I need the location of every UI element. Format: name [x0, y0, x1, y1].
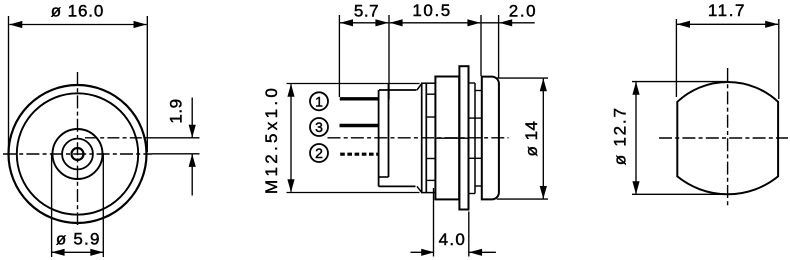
terminal number 1 — [310, 92, 328, 110]
dimension 4.0 — [411, 188, 496, 257]
vertical centerline right view — [727, 68, 729, 208]
actuator center circle — [72, 148, 84, 160]
dimension M12.5x1.0 — [262, 84, 295, 194]
button outline ø12.7 with flats 11.7 — [677, 82, 778, 194]
threaded bushing root lines — [379, 84, 422, 192]
svg-text:10.5: 10.5 — [412, 1, 452, 20]
mounting nut ø14 — [435, 77, 459, 200]
actuator middle circle — [62, 139, 93, 170]
dimension 1.9 — [85, 98, 200, 196]
rear insulator disc — [379, 84, 389, 186]
svg-text:2: 2 — [315, 145, 323, 161]
nut/flange mid seam line — [435, 137, 468, 139]
terminal number 2 — [310, 144, 328, 162]
horizontal centerline middle view — [328, 137, 509, 139]
dimension ø12.7 — [610, 82, 728, 195]
thread crest lines M12.5 — [287, 84, 420, 193]
svg-text:ø 14: ø 14 — [522, 120, 541, 156]
terminal pin 1 — [340, 97, 380, 100]
vertical centerline left view — [77, 72, 79, 225]
horizontal centerline left view — [3, 153, 152, 155]
dimension ø14 — [496, 78, 549, 199]
svg-text:1.9: 1.9 — [166, 98, 185, 123]
svg-text:11.7: 11.7 — [708, 1, 746, 20]
svg-text:5.7: 5.7 — [354, 1, 379, 20]
dimension 5.7 — [339, 1, 389, 99]
svg-text:4.0: 4.0 — [439, 230, 467, 249]
svg-text:3: 3 — [315, 119, 323, 135]
dimension ø5.9 — [52, 153, 104, 257]
svg-text:2.0: 2.0 — [509, 1, 537, 20]
terminal number 3 — [310, 118, 328, 136]
dimension 11.7 — [676, 1, 778, 99]
svg-text:ø 16.0: ø 16.0 — [51, 1, 105, 20]
horizontal centerline right view — [659, 137, 788, 139]
hex nut facet lines — [427, 94, 435, 180]
bezel inner edge circle — [17, 93, 138, 214]
dimension 10.5 — [390, 1, 481, 76]
terminal pin 2 (hidden, dashed) — [340, 153, 379, 156]
outer bezel circle ø16 — [9, 85, 147, 223]
cap skirt steps — [469, 83, 482, 194]
svg-text:ø 12.7: ø 12.7 — [610, 106, 629, 165]
svg-text:ø 5.9: ø 5.9 — [56, 229, 101, 248]
terminal pin 3 — [340, 124, 380, 127]
button cap ø14 — [482, 77, 499, 200]
svg-text:1: 1 — [315, 93, 323, 109]
dimension ø16.0 — [9, 1, 148, 152]
svg-text:M12.5x1.0: M12.5x1.0 — [262, 85, 281, 194]
actuator opening circle ø5.9 — [53, 129, 103, 179]
front flange plate — [459, 66, 468, 209]
o-ring washer — [421, 83, 435, 192]
dimension 2.0 — [481, 1, 537, 78]
